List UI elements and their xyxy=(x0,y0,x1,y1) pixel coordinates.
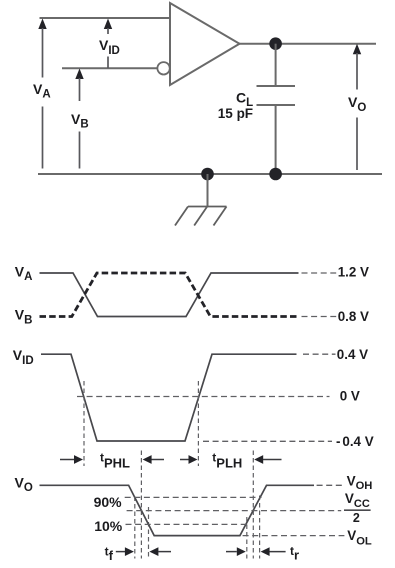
vertical dashed: V_O rising 90% xyxy=(259,496,261,559)
svg-text:0.4 V: 0.4 V xyxy=(342,434,373,449)
vertical dashed: V_O rising 10% xyxy=(246,517,248,559)
t_f right arrow xyxy=(149,547,171,556)
10% dashed line xyxy=(126,523,251,525)
wire: output xyxy=(240,43,377,45)
90% dashed line xyxy=(125,496,262,498)
wire: junction to capacitor xyxy=(275,44,277,86)
vertical dashed: V_ID falling 0-cross xyxy=(83,381,85,466)
dashed lead to 0.8 V xyxy=(302,316,337,318)
waveform V_O xyxy=(40,485,315,535)
vertical dashed: V_O rising 50% xyxy=(252,451,254,559)
svg-text:2: 2 xyxy=(353,511,360,525)
0 V reference dashed line xyxy=(77,396,330,398)
wire: bottom rail xyxy=(38,173,382,175)
V_ID arrow xyxy=(104,19,112,69)
node: ground junction xyxy=(201,168,214,181)
svg-text:1.2 V: 1.2 V xyxy=(338,264,369,279)
t_PHL right arrow xyxy=(143,455,164,464)
svg-text:10%: 10% xyxy=(94,518,123,534)
t_f left arrow xyxy=(116,547,134,556)
node: capacitor bottom junction xyxy=(269,168,282,181)
op-amp U1 xyxy=(157,3,239,85)
vertical dashed: V_ID rising 0-cross xyxy=(197,381,199,466)
svg-text:15 pF: 15 pF xyxy=(218,106,253,121)
dashed lead to 0.4 V xyxy=(303,353,336,355)
t_PLH right arrow xyxy=(254,455,281,464)
dashed lead to V_OL xyxy=(243,535,345,537)
capacitor C_L xyxy=(257,86,296,105)
dashed lead to 1.2 V xyxy=(302,272,337,274)
t_PLH left arrow xyxy=(180,455,198,464)
V_A arrow xyxy=(38,19,46,169)
vertical dashed: V_O falling 50% xyxy=(140,451,142,559)
dashed lead to V_OH xyxy=(317,484,345,486)
waveform V_ID xyxy=(41,354,297,441)
label V_CC over 2 xyxy=(344,491,371,525)
V_B arrow xyxy=(75,69,83,169)
t_r left arrow xyxy=(226,547,246,556)
V_O arrow xyxy=(353,44,361,170)
ground xyxy=(175,174,227,226)
svg-text:0.8 V: 0.8 V xyxy=(338,309,369,324)
vertical dashed: V_O falling 90% xyxy=(134,497,136,559)
svg-text:0 V: 0 V xyxy=(340,388,360,403)
vertical dashed: V_O falling 10% xyxy=(148,507,150,559)
V_CC/2 dashed line xyxy=(127,510,342,512)
wire: lower input (B) xyxy=(62,67,157,69)
wire: capacitor to bottom rail xyxy=(275,105,277,174)
wire: top input (A) xyxy=(40,17,171,19)
svg-text:90%: 90% xyxy=(94,494,123,510)
t_r right arrow xyxy=(261,547,286,556)
waveform V_B (dashed) xyxy=(40,273,299,317)
dashed lead to -0.4 V xyxy=(203,440,332,442)
waveform V_A xyxy=(40,273,299,317)
svg-text:-: - xyxy=(336,434,340,449)
t_PHL left arrow xyxy=(60,455,83,464)
node: output junction xyxy=(269,37,282,50)
svg-text:0.4 V: 0.4 V xyxy=(337,347,368,362)
